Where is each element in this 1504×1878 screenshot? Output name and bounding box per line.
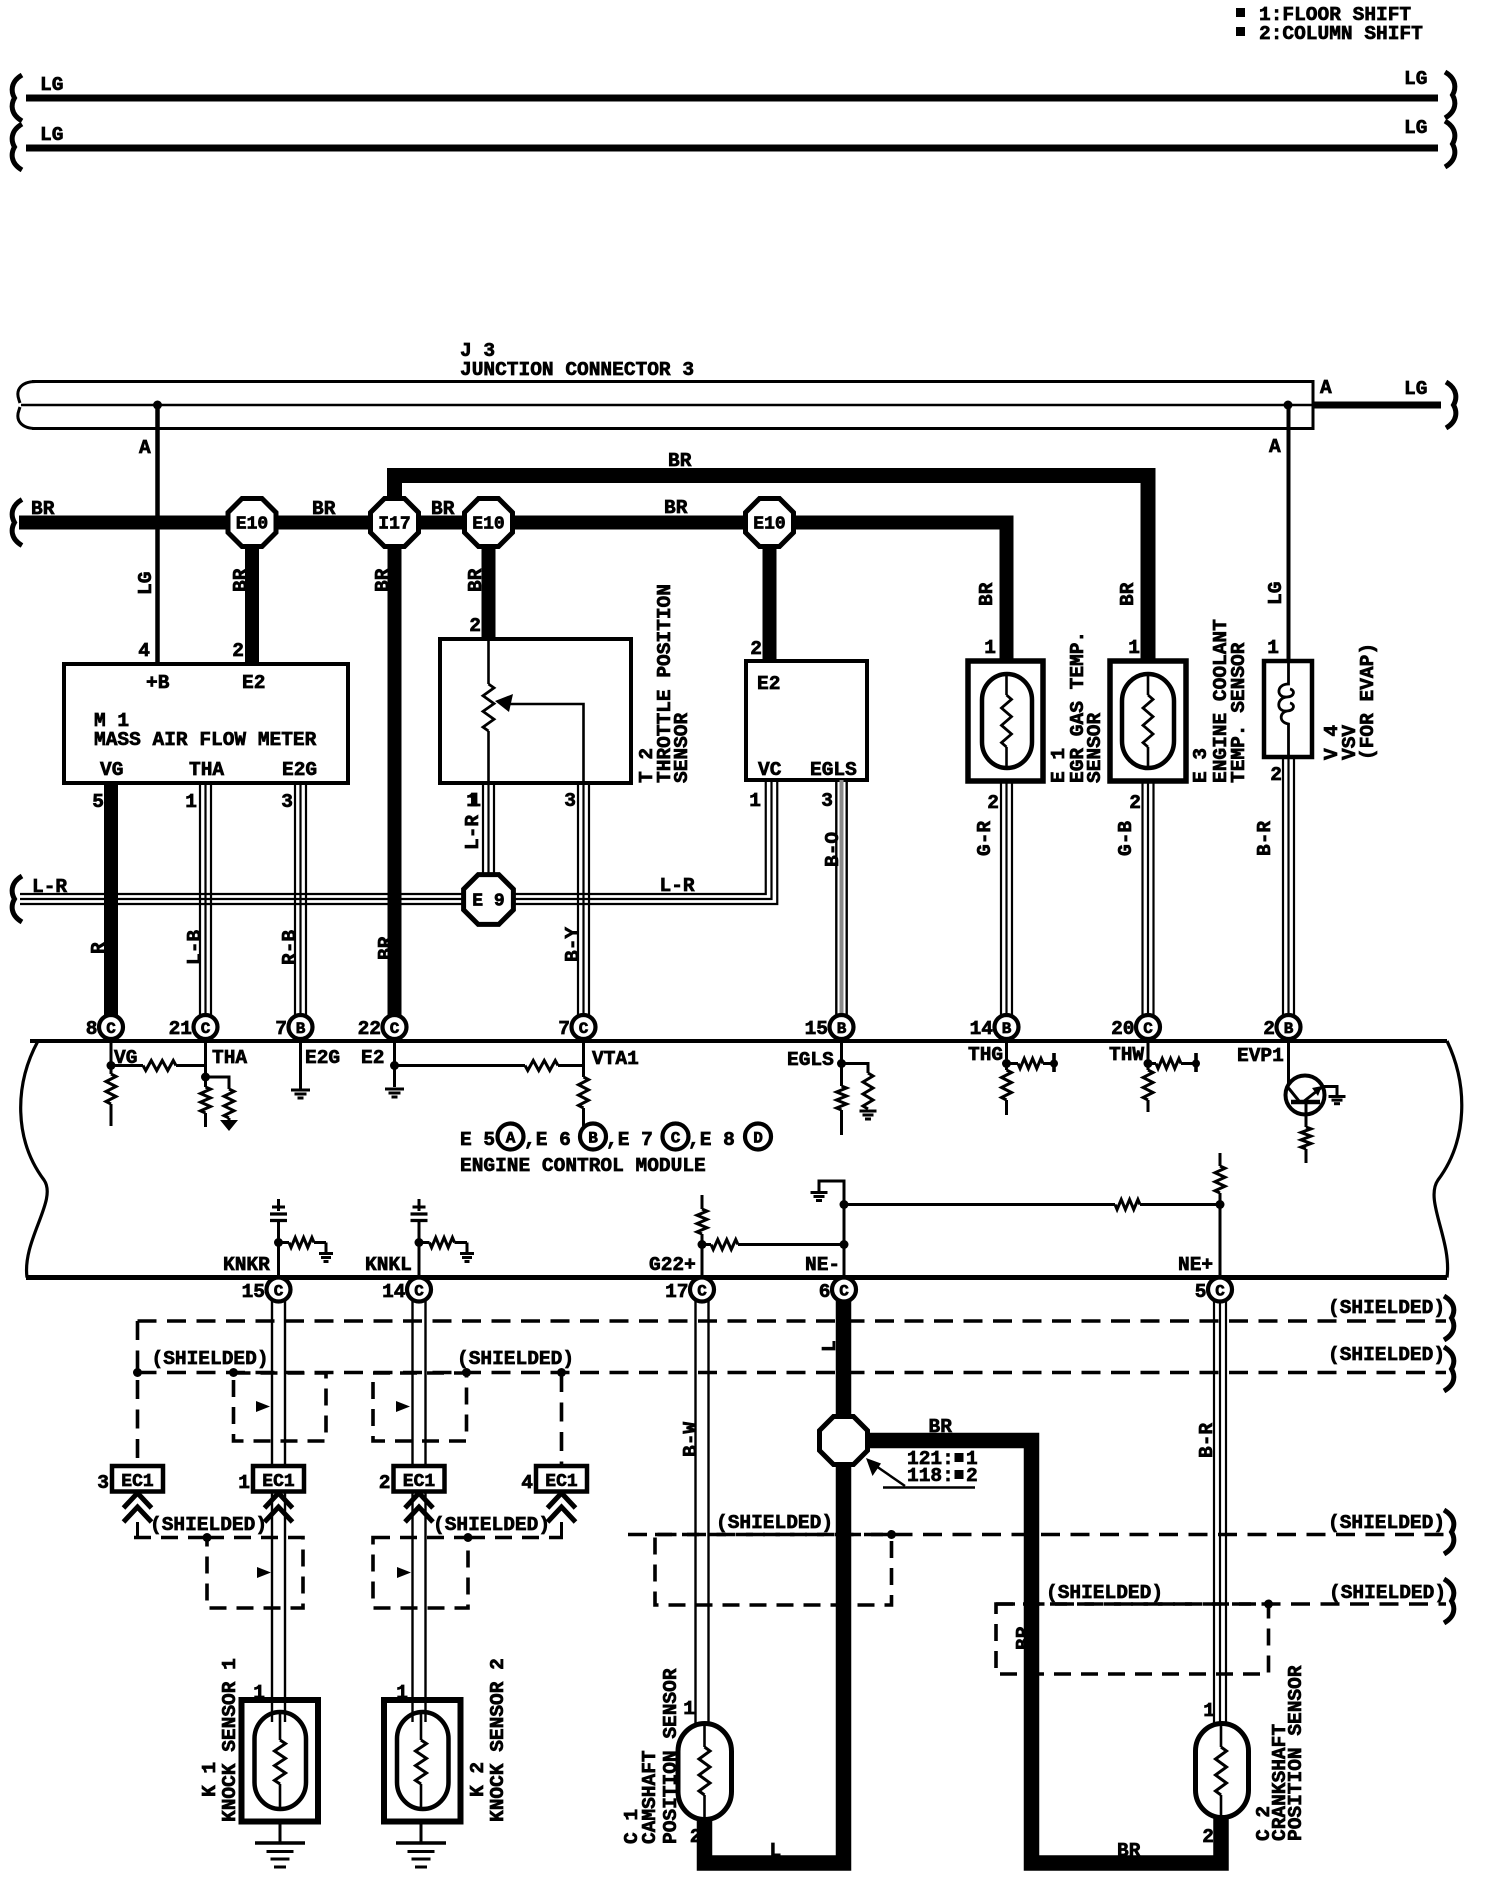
junction connector J3 mid bus wire	[21, 404, 1313, 407]
component V4 VSV box	[1264, 661, 1312, 757]
svg-text:14: 14	[382, 1281, 406, 1303]
shield box knock sensor 1 lower	[207, 1538, 303, 1609]
connector code B circle	[580, 1124, 606, 1150]
node dash junction	[462, 1368, 471, 1377]
svg-text:C: C	[201, 1020, 211, 1038]
svg-text:B: B	[1284, 1020, 1294, 1038]
junction connector E10	[228, 499, 276, 547]
component K1 knock sensor 1 box	[242, 1700, 319, 1822]
svg-text:BR: BR	[1117, 1840, 1141, 1862]
wire LG from J3 to right	[1313, 402, 1441, 409]
svg-text:C: C	[839, 1283, 849, 1301]
svg-text:B: B	[1002, 1020, 1012, 1038]
shield box crankshaft sensor	[996, 1604, 1269, 1674]
svg-text:21: 21	[169, 1018, 192, 1040]
svg-text:7: 7	[275, 1018, 287, 1040]
resistor THA vertical	[201, 1087, 211, 1113]
svg-text:E 9: E 9	[472, 892, 504, 912]
ground KNKL	[460, 1252, 474, 1255]
svg-text:CAMSHAFT: CAMSHAFT	[639, 1750, 661, 1844]
wire B-O from EGLS to ECM pin 15	[835, 780, 837, 1016]
svg-text:1: 1	[749, 790, 761, 812]
sensor resistor element	[420, 1714, 423, 1740]
resistor G22+ to NE-	[702, 1243, 711, 1246]
resistor G22+	[697, 1209, 707, 1234]
ECM pin 15B stub	[840, 1036, 843, 1041]
svg-text:2: 2	[1202, 1826, 1214, 1848]
svg-text:EC1: EC1	[121, 1472, 154, 1492]
wire L-B from MAF THA to ECM pin 21	[199, 784, 201, 1016]
svg-text:1: 1	[466, 790, 478, 812]
wire BR E10 to T2 pin 2	[482, 540, 496, 639]
svg-text:EVP1: EVP1	[1237, 1045, 1284, 1067]
svg-text:8: 8	[86, 1018, 98, 1040]
shield arrow symbol	[396, 1401, 410, 1412]
resistor THW vertical	[1143, 1070, 1153, 1100]
svg-text:D: D	[753, 1130, 763, 1148]
sensor wires into capsule	[271, 1700, 273, 1722]
svg-text:+B: +B	[146, 672, 170, 694]
svg-text:EGLS: EGLS	[810, 759, 857, 781]
sensor capsule	[397, 1712, 449, 1809]
svg-text:3: 3	[97, 1472, 109, 1494]
svg-text:L: L	[819, 1340, 841, 1352]
svg-text:B-R: B-R	[1196, 1423, 1218, 1458]
wire LG bus 2	[26, 145, 1438, 152]
connector 1 EC1 box	[253, 1466, 304, 1492]
wire A (LG) from J3 to VSV	[1287, 405, 1291, 661]
svg-text:C: C	[390, 1020, 400, 1038]
svg-text:2: 2	[1129, 792, 1141, 814]
shield box knock sensor 2 upper	[373, 1373, 467, 1441]
sensor resistor element	[1147, 675, 1150, 695]
svg-text:KNOCK SENSOR 2: KNOCK SENSOR 2	[487, 1658, 509, 1822]
svg-text:K 1: K 1	[199, 1762, 221, 1797]
svg-text:BR: BR	[1013, 1626, 1035, 1650]
svg-text:1: 1	[683, 1698, 695, 1720]
wire VG column	[110, 1041, 113, 1074]
svg-text:G22+: G22+	[649, 1254, 696, 1276]
component C1 camshaft position sensor capsule	[678, 1724, 732, 1820]
node VG junction	[107, 1061, 116, 1070]
svg-text:K 2: K 2	[467, 1762, 489, 1797]
svg-text:KNKR: KNKR	[223, 1254, 270, 1276]
sensor capsule	[982, 674, 1032, 768]
transistor collector	[1303, 1087, 1322, 1102]
svg-text:3: 3	[564, 790, 576, 812]
svg-text:LG: LG	[1265, 582, 1287, 605]
svg-text:4: 4	[138, 640, 150, 662]
wire B-W pair G22+ to camshaft sensor	[694, 1301, 696, 1727]
connector brace left LG2	[12, 124, 22, 170]
svg-text:EC1: EC1	[403, 1472, 436, 1492]
svg-text:EC1: EC1	[262, 1472, 295, 1492]
svg-text:BR: BR	[664, 497, 688, 519]
ECM pin 20C stub	[1147, 1036, 1150, 1041]
svg-text:C: C	[671, 1130, 681, 1148]
svg-text:BR: BR	[375, 936, 397, 960]
svg-text:E2: E2	[757, 673, 780, 695]
ground E2G	[291, 1089, 310, 1092]
svg-text:B: B	[588, 1130, 598, 1148]
svg-text:EC1: EC1	[545, 1472, 578, 1492]
connector brace right shield2	[1444, 1347, 1454, 1391]
ECM pin 7C stub	[582, 1036, 585, 1041]
junction connector E10	[746, 499, 794, 547]
wire R from MAF VG to ECM pin 8	[104, 784, 118, 1016]
wire K2 to ground	[420, 1822, 423, 1843]
transistor base bar	[1291, 1100, 1320, 1105]
node A left junction	[153, 401, 162, 410]
transistor emitter	[1305, 1102, 1308, 1127]
svg-text:(SHIELDED): (SHIELDED)	[1328, 1297, 1445, 1319]
connector 2 EC1 box	[394, 1466, 445, 1492]
potentiometer wiper arrow	[495, 694, 513, 712]
svg-text:SENSOR: SENSOR	[671, 712, 693, 783]
node KNKL junction	[415, 1238, 424, 1247]
resistor VTA1 pulldown	[579, 1077, 589, 1108]
node G22+ junction	[698, 1240, 707, 1249]
svg-text:A: A	[506, 1130, 516, 1148]
svg-text:E10: E10	[472, 515, 504, 535]
connector pin 5 C	[1208, 1278, 1232, 1302]
connector pin 2 B	[1277, 1015, 1301, 1039]
svg-text:L-B: L-B	[184, 930, 206, 965]
resistor THG vertical	[1002, 1070, 1012, 1100]
svg-text:VC: VC	[758, 759, 782, 781]
connector pin 7 B	[289, 1015, 313, 1039]
svg-text:BR: BR	[431, 498, 455, 520]
ECM pin 21C stub	[204, 1036, 207, 1041]
node dash junction	[464, 1533, 473, 1542]
svg-text:C: C	[697, 1283, 707, 1301]
ground K1	[255, 1841, 305, 1845]
wire G-R from E1 to ECM pin 14	[1000, 781, 1002, 1016]
wire K1 to ground	[279, 1822, 282, 1843]
svg-text:118:: 118:	[907, 1465, 954, 1487]
resistor EVP1	[1301, 1127, 1311, 1149]
shield arrow symbol	[257, 1567, 271, 1578]
svg-text:BR: BR	[929, 1416, 953, 1438]
ground arrow THA	[220, 1120, 238, 1131]
wire E2G column	[299, 1041, 302, 1089]
resistor VG pulldown	[106, 1074, 116, 1104]
wire NE+ column top	[1219, 1153, 1222, 1166]
svg-text:2:COLUMN SHIFT: 2:COLUMN SHIFT	[1259, 23, 1423, 45]
resistor VG-THA	[111, 1064, 143, 1067]
svg-text:E2G: E2G	[282, 759, 317, 781]
wire NE- to NE+ link	[844, 1203, 1115, 1206]
svg-text:BR: BR	[465, 568, 487, 592]
connector pin 15 C	[267, 1278, 291, 1302]
svg-text:E 3: E 3	[1190, 748, 1212, 783]
wire R-B from MAF E2G to ECM pin 7	[294, 784, 296, 1016]
svg-text:(SHIELDED): (SHIELDED)	[716, 1512, 833, 1534]
svg-text:VTA1: VTA1	[592, 1048, 639, 1070]
svg-text:B-W: B-W	[680, 1422, 702, 1457]
resistor KNKR branch	[279, 1241, 290, 1244]
potentiometer resistor	[483, 684, 494, 731]
connector chevrons	[405, 1493, 433, 1522]
connector pin 21 C	[194, 1015, 218, 1039]
connector brace right shield3	[1444, 1510, 1454, 1554]
connector brace right J3 LG	[1446, 382, 1456, 428]
svg-text:BR: BR	[312, 498, 336, 520]
svg-text:(SHIELDED): (SHIELDED)	[433, 1514, 550, 1536]
shield drain dashed EC1-3	[136, 1321, 140, 1466]
note marker 2	[1236, 27, 1245, 36]
connector pin 20 C	[1136, 1015, 1160, 1039]
svg-text:B: B	[837, 1020, 847, 1038]
wire THG column	[1005, 1041, 1008, 1070]
svg-text:NE-: NE-	[805, 1254, 840, 1276]
svg-text:BR: BR	[31, 498, 55, 520]
svg-text:THA: THA	[212, 1047, 247, 1069]
wire BR main trunk	[19, 523, 1007, 662]
node dash junction	[229, 1368, 238, 1377]
wire L-R trunk line3	[20, 781, 777, 904]
svg-text:LG: LG	[40, 74, 63, 96]
svg-text:C: C	[414, 1283, 424, 1301]
svg-text:1: 1	[984, 637, 996, 659]
svg-text:A: A	[1269, 436, 1281, 458]
svg-text:VG: VG	[100, 759, 123, 781]
junction connector I17	[371, 499, 419, 547]
wire KNKR column	[277, 1243, 280, 1279]
svg-text:MASS AIR FLOW METER: MASS AIR FLOW METER	[94, 729, 317, 751]
connector brace right shield4	[1444, 1579, 1454, 1623]
resistor NE+	[1215, 1166, 1225, 1193]
svg-text:,E 7: ,E 7	[606, 1129, 653, 1151]
svg-text:,E 6: ,E 6	[524, 1129, 571, 1151]
ground transistor	[1329, 1095, 1346, 1098]
svg-text:1: 1	[253, 1682, 265, 1704]
component T2 throttle position sensor box	[440, 639, 631, 783]
svg-text:1: 1	[1128, 637, 1140, 659]
svg-text:JUNCTION CONNECTOR 3: JUNCTION CONNECTOR 3	[460, 359, 694, 381]
svg-text:(SHIELDED): (SHIELDED)	[152, 1348, 269, 1370]
wire B-Y from T2 pin3 to ECM pin 7 VTA1	[577, 784, 579, 1016]
svg-text:3: 3	[281, 791, 293, 813]
junction connector E9	[464, 875, 514, 925]
svg-text:(SHIELDED): (SHIELDED)	[457, 1348, 574, 1370]
wire EVP1 column	[1287, 1041, 1290, 1090]
svg-text:B-Y: B-Y	[562, 927, 584, 962]
ECM left torn edge	[21, 1041, 48, 1278]
svg-text:BR: BR	[668, 450, 692, 472]
junction connector J3 top edge	[32, 380, 1313, 383]
wire BR top trunk (I17 to E3)	[395, 476, 1149, 662]
potentiometer wiper line	[508, 704, 584, 783]
connector brace left BR	[12, 500, 22, 546]
wire VTA1 column	[582, 1041, 585, 1077]
ground K2	[396, 1841, 446, 1845]
resistor THW horizontal	[1148, 1062, 1156, 1065]
shield dashed line 1	[138, 1319, 1447, 1323]
connector pin 15 B	[830, 1015, 854, 1039]
svg-text:B-O: B-O	[822, 832, 844, 867]
shield dashed line 4	[996, 1602, 1446, 1606]
svg-text:2: 2	[987, 792, 999, 814]
component E3 engine coolant temp sensor box	[1110, 661, 1186, 781]
svg-text:22: 22	[358, 1018, 381, 1040]
svg-text:4: 4	[521, 1472, 533, 1494]
connector pin 6 C	[832, 1278, 856, 1302]
svg-text:TEMP. SENSOR: TEMP. SENSOR	[1228, 642, 1250, 783]
svg-text:KNKL: KNKL	[365, 1254, 412, 1276]
svg-text:E 5: E 5	[460, 1129, 495, 1151]
junction connector octagon (121/118)	[820, 1417, 868, 1465]
sensor resistor element	[1005, 675, 1008, 695]
svg-text:BR: BR	[230, 568, 252, 592]
node EGLS junction	[837, 1059, 846, 1068]
node dash junction	[887, 1530, 896, 1539]
svg-text:BR: BR	[1117, 582, 1139, 606]
wire E2 column	[393, 1041, 396, 1087]
svg-text:LG: LG	[1404, 378, 1427, 400]
terminal bar THW	[1194, 1053, 1198, 1072]
ECM pin 22C stub	[393, 1036, 396, 1041]
connector brace right LG1	[1445, 72, 1455, 118]
junction connector J3 right edge	[1312, 380, 1315, 430]
wire THA column	[204, 1041, 207, 1087]
wire L-R trunk line1	[20, 781, 766, 894]
node NE- junction	[840, 1240, 849, 1249]
sensor capsule	[255, 1712, 307, 1809]
svg-text:B-R: B-R	[1254, 821, 1276, 856]
svg-text:3: 3	[821, 790, 833, 812]
svg-text:SENSOR: SENSOR	[1084, 712, 1106, 783]
wire B-R triple NE+ to crankshaft sensor	[1213, 1301, 1215, 1727]
svg-text:E2: E2	[361, 1047, 384, 1069]
wire T2 pin1 to E9	[482, 784, 484, 877]
shield dashed link EC1-3 to box	[134, 1536, 207, 1540]
svg-text:I17: I17	[378, 515, 410, 535]
wire LG bus 1	[26, 95, 1438, 102]
junction connector J3 left cap	[18, 382, 36, 429]
wire BR octagon to crankshaft sensor	[867, 1441, 1221, 1864]
svg-text:C: C	[1143, 1020, 1153, 1038]
wire A (LG) from J3 to MAF +B	[155, 405, 160, 664]
connector pin 22 C	[383, 1015, 407, 1039]
connector brace right shield1	[1444, 1296, 1454, 1340]
resistor THA branch	[224, 1089, 234, 1118]
svg-text:THW: THW	[1109, 1044, 1144, 1066]
wire KNKR pair to knock sensor 1	[271, 1301, 273, 1718]
capacitor KNKR	[277, 1199, 280, 1211]
ECM bottom edge	[26, 1275, 1447, 1280]
svg-text:LG: LG	[1404, 117, 1427, 139]
node THA junction	[201, 1073, 210, 1082]
svg-text:THG: THG	[968, 1044, 1003, 1066]
callout arrow	[876, 1466, 905, 1486]
svg-text:17: 17	[665, 1281, 688, 1303]
wire THA branch	[206, 1077, 230, 1089]
component M1 mass air flow meter box	[64, 664, 348, 783]
svg-text:THA: THA	[189, 759, 224, 781]
svg-text:2: 2	[379, 1472, 391, 1494]
svg-text:(SHIELDED): (SHIELDED)	[1329, 1582, 1446, 1604]
svg-text:2: 2	[1270, 764, 1282, 786]
sensor wires into capsule	[411, 1700, 413, 1722]
resistor E2-VTA1	[395, 1064, 526, 1067]
note marker 1	[1236, 8, 1245, 17]
wire BR E10 to MAF E2	[245, 540, 259, 664]
svg-text:C: C	[274, 1283, 284, 1301]
node dash junction	[133, 1368, 142, 1377]
wire KNKL column	[418, 1243, 421, 1279]
connector brace left L-R	[12, 876, 22, 922]
component K2 knock sensor 2 box	[384, 1700, 461, 1822]
ECM pin 14B stub	[1005, 1036, 1008, 1041]
wire NE- ground branch	[819, 1181, 844, 1205]
callout underline	[883, 1486, 975, 1489]
svg-text:NE+: NE+	[1178, 1254, 1213, 1276]
potentiometer lead	[487, 639, 490, 684]
shield box camshaft sensor	[655, 1535, 892, 1606]
svg-text:(FOR EVAP): (FOR EVAP)	[1357, 643, 1379, 760]
svg-text:E10: E10	[236, 515, 268, 535]
wire NE- column	[843, 1205, 846, 1279]
component E1 EGR gas temp sensor box	[968, 661, 1043, 781]
svg-text:(SHIELDED): (SHIELDED)	[150, 1514, 267, 1536]
connector chevrons	[548, 1493, 576, 1522]
svg-text:2: 2	[469, 615, 481, 637]
wire BR E10 to EGR sensor E2 pin	[763, 540, 777, 661]
svg-text:7: 7	[558, 1018, 570, 1040]
svg-text:BR: BR	[372, 568, 394, 592]
node NE+ junction	[1216, 1200, 1225, 1209]
connector 4 EC1 box	[536, 1466, 587, 1492]
svg-text:2: 2	[966, 1465, 978, 1487]
node dash junction	[1264, 1600, 1273, 1609]
connector brace right LG2	[1445, 121, 1455, 167]
svg-text:2: 2	[690, 1826, 702, 1848]
wire L octagon to camshaft sensor	[705, 1465, 844, 1863]
svg-text:14: 14	[970, 1018, 994, 1040]
transistor EVP1	[1286, 1076, 1325, 1115]
svg-text:5: 5	[1195, 1281, 1207, 1303]
wire EGLS column	[840, 1041, 843, 1086]
shield box knock sensor 2 lower	[373, 1538, 468, 1609]
shield dashed line 2	[138, 1371, 1447, 1375]
svg-text:E2: E2	[242, 672, 265, 694]
solenoid coil	[1279, 661, 1294, 757]
node THG junction	[1002, 1059, 1011, 1068]
svg-text:C: C	[106, 1020, 116, 1038]
node E2 junction	[390, 1061, 399, 1070]
wire G22+ column top	[701, 1195, 704, 1209]
wire THW column	[1147, 1041, 1150, 1070]
svg-text:A: A	[1320, 377, 1332, 399]
svg-text:G-R: G-R	[974, 821, 996, 856]
component EGR valve position sensor box	[746, 661, 867, 780]
svg-text:A: A	[139, 437, 151, 459]
wire KNKL pair to knock sensor 2	[411, 1301, 413, 1718]
ground KNKR	[319, 1252, 333, 1255]
connector code A circle	[498, 1124, 524, 1150]
svg-text:(SHIELDED): (SHIELDED)	[1328, 1344, 1445, 1366]
junction connector E10	[465, 499, 513, 547]
shield box knock sensor 1 upper	[234, 1373, 327, 1441]
shield arrow symbol	[256, 1401, 270, 1412]
connector brace left LG1	[12, 75, 22, 121]
svg-text:E10: E10	[753, 515, 785, 535]
svg-text:G-B: G-B	[1115, 821, 1137, 856]
wire L-R trunk line2	[20, 781, 772, 899]
svg-text:(SHIELDED): (SHIELDED)	[1328, 1512, 1445, 1534]
potentiometer lead lower	[487, 731, 490, 783]
